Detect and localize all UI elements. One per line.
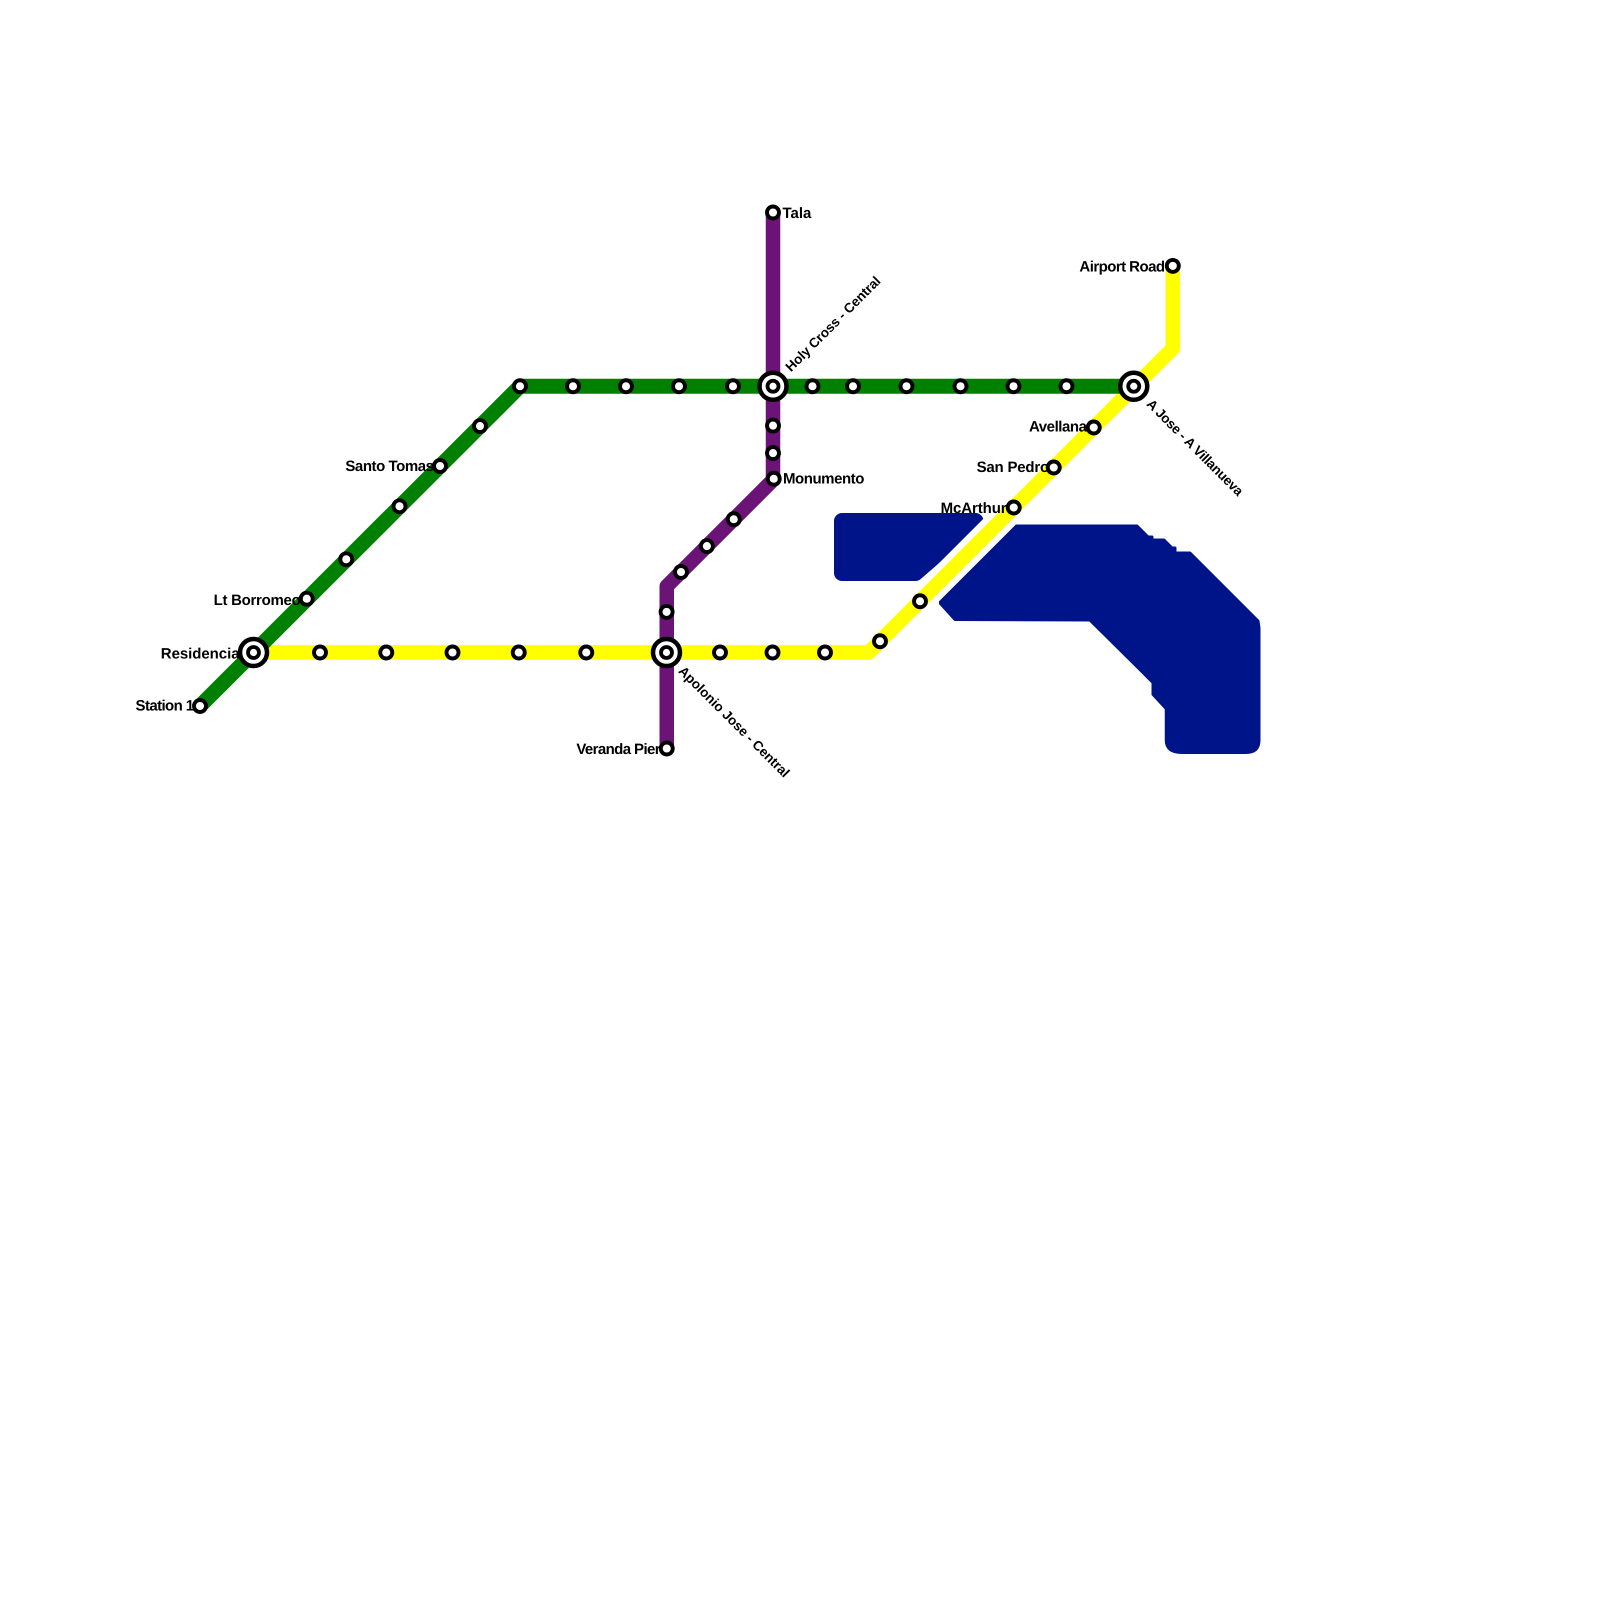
station Tala — [767, 207, 779, 219]
station yellow h4 — [513, 647, 525, 659]
station yellow h7 — [767, 647, 779, 659]
station green h10 — [1061, 380, 1073, 392]
station San Pedro — [1048, 462, 1060, 474]
station yellow diag 2 — [914, 595, 926, 607]
svg-text:Veranda Pier: Veranda Pier — [576, 741, 660, 758]
station green diag 3 — [474, 420, 486, 432]
yellow line Residencia to Airport Road — [254, 266, 1173, 653]
green line Station 1 to A Jose - A Villanueva — [200, 386, 1134, 706]
svg-text:Lt Borromeo: Lt Borromeo — [214, 592, 301, 609]
svg-text:Avellana: Avellana — [1029, 419, 1088, 436]
station purple diag 1 — [728, 513, 740, 525]
station green h6 — [847, 380, 859, 392]
station green h5 — [807, 380, 819, 392]
station McArthur — [1008, 502, 1020, 514]
station Santo Tomas — [434, 460, 446, 472]
station yellow h6 — [714, 647, 726, 659]
interchange Residencia — [240, 639, 267, 666]
station purple diag 3 — [675, 566, 687, 578]
station Station 1 — [194, 700, 206, 712]
svg-text:Tala: Tala — [783, 205, 813, 222]
station Monumento — [768, 473, 780, 485]
interchange Apolonio Jose - Central — [653, 639, 680, 666]
station purple 2 — [767, 447, 779, 459]
station purple 1 — [767, 420, 779, 432]
svg-text:Station 1: Station 1 — [136, 698, 194, 715]
interchange Holy Cross - Central — [760, 373, 787, 400]
station green h4 — [727, 380, 739, 392]
station yellow h1 — [314, 647, 326, 659]
interchange A Jose - A Villanueva — [1120, 373, 1147, 400]
station Avellana — [1088, 422, 1100, 434]
station green h8 — [955, 380, 967, 392]
station yellow h5 — [580, 647, 592, 659]
station green h1 — [567, 380, 579, 392]
station yellow h3 — [447, 647, 459, 659]
svg-text:McArthur: McArthur — [941, 500, 1007, 517]
station green h9 — [1008, 380, 1020, 392]
white casing under yellow diagonal over water — [869, 348, 1173, 652]
station Veranda Pier — [661, 743, 673, 755]
station Airport Road — [1167, 260, 1179, 272]
purple line Tala to Veranda Pier — [667, 213, 773, 749]
svg-text:Residencia: Residencia — [161, 646, 240, 663]
station green diag 2 — [394, 500, 406, 512]
station green h7 — [901, 380, 913, 392]
water polygon left rectangle — [842, 521, 976, 573]
station yellow h8 — [819, 647, 831, 659]
station green h2 — [620, 380, 632, 392]
svg-text:San Pedro: San Pedro — [977, 459, 1049, 476]
svg-text:Santo Tomas: Santo Tomas — [345, 458, 433, 475]
station yellow h2 — [380, 647, 392, 659]
svg-text:Monumento: Monumento — [783, 471, 864, 488]
station green corner — [514, 380, 526, 392]
station purple vert 1 — [661, 606, 673, 618]
station yellow diag 1 — [874, 635, 886, 647]
station green diag 1 — [340, 553, 352, 565]
svg-text:Airport Road: Airport Road — [1079, 259, 1164, 276]
station purple diag 2 — [701, 540, 713, 552]
station Lt Borromeo — [301, 593, 313, 605]
station green h3 — [673, 380, 685, 392]
water polygon right large shape — [941, 526, 1260, 753]
